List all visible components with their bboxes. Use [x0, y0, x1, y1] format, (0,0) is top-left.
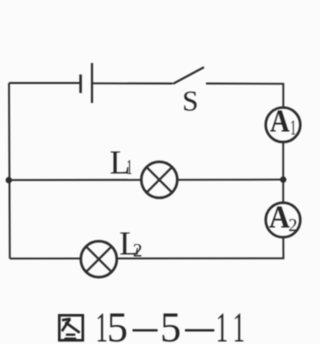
switch S blade	[173, 67, 204, 84]
wire middle branch	[9, 179, 283, 182]
caption character 图	[59, 315, 83, 340]
svg-text:1: 1	[216, 305, 228, 344]
wire switch to top-right corner	[206, 84, 283, 108]
caption dash	[185, 329, 214, 331]
ammeter A2	[266, 199, 301, 237]
lamp L2	[81, 241, 117, 277]
svg-text:S: S	[182, 86, 198, 118]
svg-text:1: 1	[290, 116, 296, 140]
svg-text:1: 1	[127, 155, 133, 179]
caption dash	[133, 329, 158, 331]
junction node right	[280, 176, 286, 182]
wire A2 to bottom-right corner	[10, 237, 284, 258]
battery B1 short plate (negative)	[79, 75, 82, 94]
wire left vertical	[8, 83, 11, 259]
svg-text:A: A	[270, 105, 290, 139]
svg-text:A: A	[269, 199, 290, 235]
label L2	[119, 226, 142, 263]
svg-text:2: 2	[288, 215, 297, 235]
svg-text:1: 1	[233, 305, 245, 344]
svg-text:5: 5	[107, 306, 128, 344]
wire top-left	[9, 82, 80, 84]
junction node left	[6, 177, 12, 183]
ammeter A1	[266, 105, 301, 143]
label L1	[110, 145, 133, 182]
svg-text:2: 2	[133, 240, 143, 261]
wire battery to switch	[92, 82, 173, 84]
wire A1 to junction	[282, 142, 284, 203]
battery B1 long plate (positive)	[91, 63, 93, 103]
svg-text:5: 5	[160, 306, 181, 344]
lamp L1	[141, 162, 177, 198]
